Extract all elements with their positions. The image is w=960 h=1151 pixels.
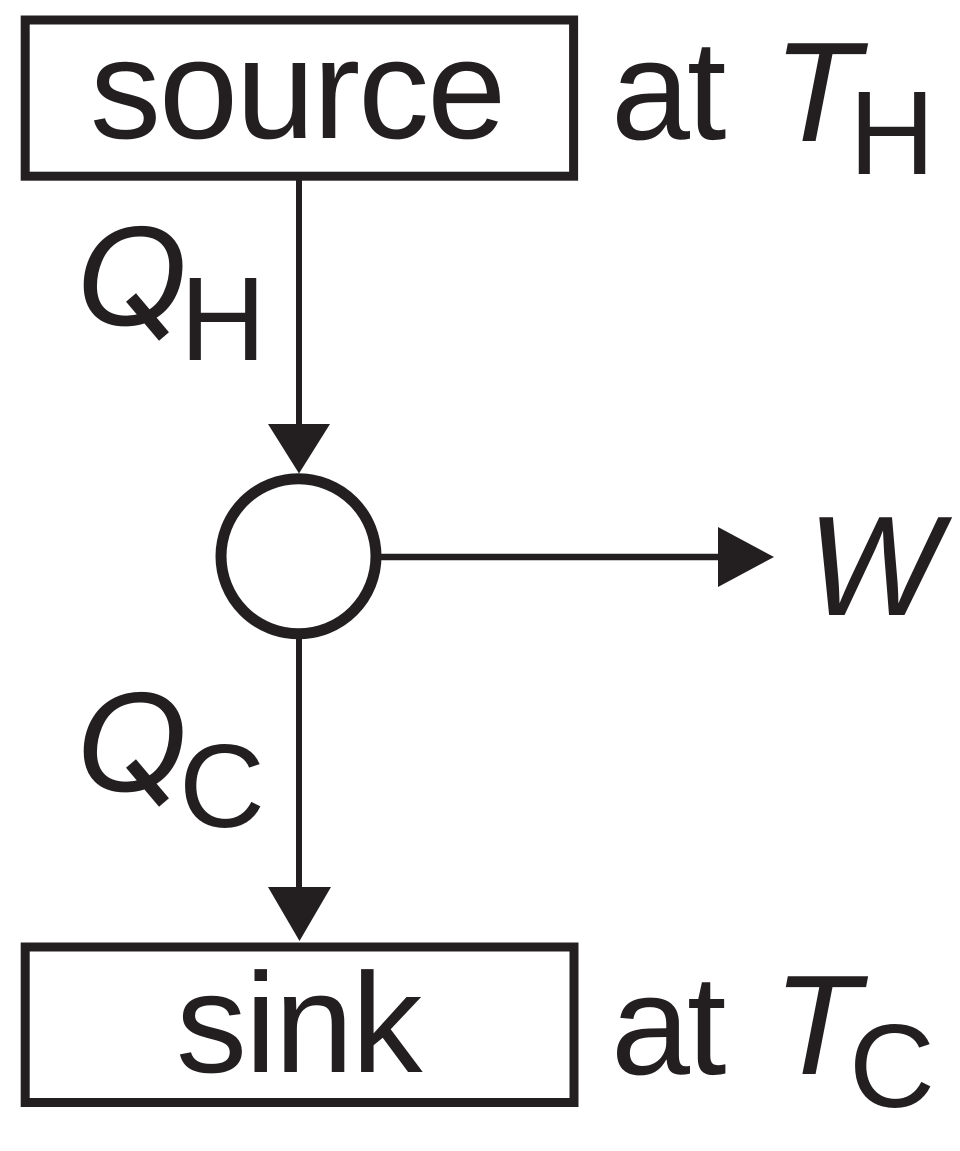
svg-text:H: H (180, 253, 266, 386)
svg-text:W: W (807, 487, 953, 646)
svg-text:H: H (849, 67, 935, 200)
source reservoir box (25, 20, 573, 176)
sink reservoir box (25, 947, 574, 1103)
wire QC arrow shaft (296, 638, 302, 891)
wire QH arrow shaft (296, 180, 302, 428)
svg-text:O: O (76, 663, 186, 822)
svg-text:C: C (179, 720, 265, 853)
QC arrowhead (268, 887, 331, 941)
svg-text:source: source (90, 10, 504, 169)
svg-text:at: at (611, 946, 726, 1105)
svg-text:at: at (611, 11, 726, 170)
W arrowhead (718, 527, 774, 587)
svg-text:sink: sink (176, 944, 424, 1103)
engine circle (221, 479, 376, 634)
svg-text:O: O (76, 197, 186, 356)
wire W arrow shaft (381, 554, 722, 561)
QH arrowhead (268, 424, 330, 474)
svg-text:C: C (849, 1000, 935, 1133)
